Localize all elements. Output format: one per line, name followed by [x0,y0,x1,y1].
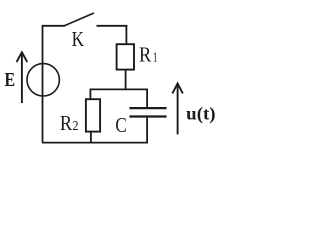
resistor R2 body [86,99,100,131]
wire capacitor bottom to bottom rail [146,118,148,143]
svg-text:R: R [60,111,72,135]
switch K fixed contact wire [97,25,128,27]
source E circle [27,64,59,96]
wire left vertical (E branch) [42,25,44,142]
wire node horizontal (R2/C parallel top) [90,88,148,90]
svg-text:2: 2 [72,119,78,134]
svg-text:1: 1 [153,51,158,66]
capacitor C top plate [129,107,166,109]
wire from switch down to R1 [125,25,127,44]
wire R1 bottom to node [125,70,127,90]
svg-text:R: R [139,43,151,67]
wire R2 bottom to bottom rail [90,132,92,143]
svg-text:u(t): u(t) [186,103,215,124]
svg-text:C: C [115,113,126,137]
resistor R1 body [117,44,134,69]
wire bottom rail [42,142,148,144]
svg-text:K: K [72,27,84,51]
capacitor C bottom plate [129,115,166,117]
source E arrow [17,52,28,103]
wire node down to R2 [89,89,91,100]
wire node down to capacitor [146,89,148,108]
switch K blade [65,13,94,26]
svg-text:E: E [5,69,16,91]
wire top horizontal to switch [42,25,65,27]
voltage u(t) arrow [172,83,182,134]
